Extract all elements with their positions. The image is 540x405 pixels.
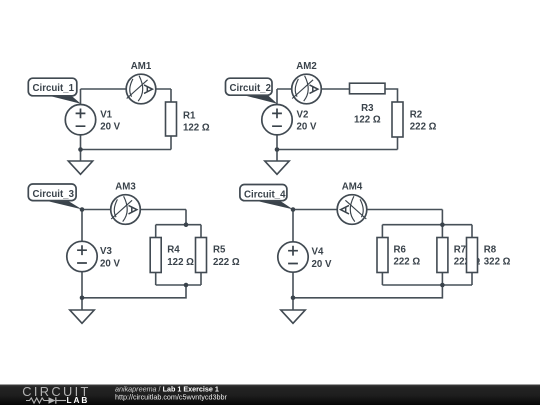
wire V2 top lead: [276, 89, 278, 104]
resistor R7: [437, 238, 448, 273]
ground c1: [68, 161, 92, 174]
wire bottom rail c2: [277, 149, 398, 151]
resistor R5: [196, 238, 207, 273]
node Circuit_2 callout: [244, 95, 278, 104]
junction dot c4 bottom: [291, 296, 296, 301]
svg-text:R8: R8: [484, 245, 497, 256]
resistor R1: [166, 102, 177, 136]
logo resistor zigzag and diode: [26, 398, 49, 403]
junction dot parallel bottom c3: [184, 283, 189, 288]
wire R6 bottom lead: [381, 273, 383, 286]
resistor R6: [377, 238, 388, 273]
svg-text:R4: R4: [167, 245, 180, 256]
svg-text:Circuit_2: Circuit_2: [230, 83, 271, 94]
wire R7 bottom lead: [441, 273, 443, 286]
svg-text:222 Ω: 222 Ω: [410, 122, 437, 133]
wire R8 bottom lead: [471, 273, 473, 286]
svg-text:AM3: AM3: [115, 181, 136, 192]
svg-text:V3: V3: [100, 246, 112, 257]
ammeter AM1: [126, 74, 156, 104]
wire top rail c3: [82, 209, 186, 211]
junction dot c3 bottom: [80, 296, 85, 301]
junction dot c4 top: [291, 207, 296, 212]
svg-text:20 V: 20 V: [100, 122, 120, 133]
wire R8 top lead: [471, 225, 473, 238]
node Circuit_4 callout: [255, 201, 293, 210]
svg-text:222 Ω: 222 Ω: [213, 257, 240, 268]
wire V4 top lead: [292, 210, 294, 242]
wire parallel top rail c3: [156, 224, 201, 226]
junction dot parallel bottom c4: [440, 283, 445, 288]
voltage source V1: [65, 105, 95, 135]
wire down from parallel to bottom rail c3: [82, 285, 186, 298]
ground c4: [281, 310, 305, 323]
wire top rail c2 left: [277, 88, 350, 90]
junction dot parallel top c3: [184, 222, 189, 227]
svg-text:R6: R6: [394, 245, 407, 256]
wire down to parallel top rail: [185, 210, 187, 225]
svg-text:122 Ω: 122 Ω: [183, 122, 210, 133]
svg-text:R2: R2: [410, 110, 422, 121]
wire R4 top lead: [155, 225, 157, 238]
ammeter AM4 (mirrored): [337, 195, 367, 225]
junction dot parallel top c4: [440, 222, 445, 227]
wire V2 bottom to ground: [276, 135, 278, 161]
wire R7 top lead: [441, 225, 443, 238]
voltage source V3: [67, 241, 97, 271]
wire top rail c1: [81, 88, 172, 90]
wire bottom rail c1: [81, 149, 172, 151]
wire R5 bottom lead: [200, 273, 202, 286]
junction dot c3 top: [80, 207, 85, 212]
ground c3: [70, 310, 94, 323]
node Circuit_3 callout: [44, 200, 83, 209]
svg-text:122 Ω: 122 Ω: [167, 257, 194, 268]
svg-text:20 V: 20 V: [100, 258, 120, 269]
svg-text:20 V: 20 V: [312, 259, 332, 270]
wire R5 top lead: [200, 225, 202, 238]
svg-text:V2: V2: [297, 109, 309, 120]
wire R4 bottom lead: [155, 273, 157, 286]
svg-text:R3: R3: [361, 103, 374, 114]
ground c2: [265, 161, 289, 174]
resistor R4: [150, 238, 161, 273]
node Circuit_1 callout: [47, 95, 81, 104]
wire V3 top lead: [81, 210, 83, 242]
svg-text:AM4: AM4: [342, 181, 363, 192]
wire V3 bottom to ground: [81, 272, 83, 310]
wire R6 top lead: [381, 225, 383, 238]
svg-text:V4: V4: [312, 247, 324, 258]
wire R1 bottom lead: [170, 136, 172, 150]
wire top rail c4: [293, 209, 442, 211]
svg-text:V1: V1: [100, 109, 112, 120]
wire V1 top lead: [80, 89, 82, 104]
svg-text:R5: R5: [213, 245, 226, 256]
ammeter AM3: [111, 195, 141, 225]
wire R2 bottom lead: [397, 137, 399, 150]
svg-text:Circuit_4: Circuit_4: [244, 189, 286, 200]
wire parallel bottom rail c3: [156, 284, 201, 286]
svg-text:Circuit_1: Circuit_1: [33, 83, 75, 94]
svg-text:322 Ω: 322 Ω: [484, 257, 511, 268]
resistor R8 (drawn over R7 label): [467, 238, 478, 273]
svg-text:122 Ω: 122 Ω: [354, 114, 381, 125]
wire V4 bottom to ground: [292, 272, 294, 310]
voltage source V4: [278, 242, 308, 272]
svg-text:AM1: AM1: [131, 61, 152, 72]
junction dot c1 bottom: [78, 147, 83, 152]
wire parallel top rail c4: [382, 224, 472, 226]
ammeter AM2: [292, 74, 322, 104]
voltage source V2: [262, 105, 292, 135]
svg-text:LAB: LAB: [67, 395, 90, 405]
svg-text:222 Ω: 222 Ω: [394, 257, 421, 268]
junction dot c2 bottom: [275, 147, 280, 152]
svg-text:20 V: 20 V: [297, 122, 317, 133]
wire R1 top lead: [170, 89, 172, 102]
resistor R3 (horizontal): [350, 83, 386, 94]
wire down from parallel to bottom rail c4: [293, 285, 442, 298]
wire down to parallel top rail c4: [441, 210, 443, 225]
svg-text:AM2: AM2: [296, 61, 316, 72]
svg-text:http://circuitlab.com/c5wvntyc: http://circuitlab.com/c5wvntycd3bbr: [115, 393, 227, 402]
svg-text:Circuit_3: Circuit_3: [33, 189, 75, 200]
resistor R2: [392, 102, 403, 137]
wire V1 bottom to ground: [80, 135, 82, 161]
svg-text:R7: R7: [454, 245, 466, 256]
wire parallel bottom rail c4: [382, 284, 472, 286]
svg-text:R1: R1: [183, 110, 196, 121]
wire R3 right to R2: [385, 89, 398, 102]
footer bar: [0, 385, 540, 405]
